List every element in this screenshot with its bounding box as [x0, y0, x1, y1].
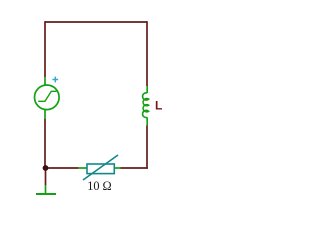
resistor R1 right lead: [114, 167, 120, 169]
inductor L bottom lead: [146, 117, 148, 125]
source V1 bottom lead: [44, 109, 46, 119]
source V1 body: [35, 85, 60, 110]
wire bottom left segment: [45, 167, 79, 169]
wire bottom right segment: [121, 167, 148, 169]
source V1 top lead: [44, 77, 46, 85]
wire right upper: [146, 21, 148, 86]
inductor L top lead: [146, 86, 148, 93]
resistor R1 body: [87, 164, 114, 174]
wire left upper: [44, 21, 46, 77]
wire top: [45, 21, 147, 23]
wire left lower: [44, 119, 46, 168]
source V1 plus sign: [52, 77, 58, 83]
svg-text:L: L: [155, 99, 162, 113]
source V1 ramp symbol: [39, 91, 56, 101]
junction dot: [43, 165, 49, 171]
ground stem: [45, 185, 47, 194]
ground bar: [36, 193, 56, 195]
resistor R1 diagonal stroke: [83, 155, 118, 180]
inductor L coil: [143, 93, 149, 118]
resistor R1 left lead: [79, 167, 88, 169]
wire right lower: [146, 126, 148, 169]
wire ground stub: [45, 168, 47, 185]
svg-text:10 Ω: 10 Ω: [87, 179, 112, 193]
